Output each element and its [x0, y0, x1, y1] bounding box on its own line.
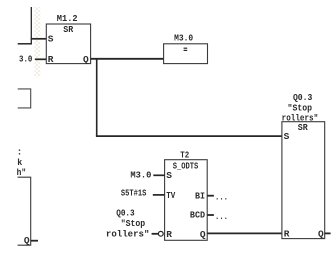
svg-text:R: R — [284, 229, 290, 240]
svg-text:Q: Q — [24, 235, 30, 246]
assign coil box M3.0 — [164, 44, 208, 64]
assign = symbol — [184, 48, 188, 49]
wire: vertical drop from Q junction — [96, 59, 98, 136]
wire: Q of timer to R of output SR — [207, 232, 282, 234]
svg-text:Q: Q — [200, 229, 206, 240]
partial SR box (cut off at left, bottom) — [18, 177, 31, 245]
svg-text:M1.2: M1.2 — [57, 13, 78, 24]
wire: TV input of timer — [153, 194, 165, 196]
output SR flip-flop Q0.3 box — [282, 122, 325, 239]
wire: S input of SR flip-flop M1.2 — [31, 38, 47, 40]
svg-text:h": h" — [17, 167, 27, 178]
svg-text:rollers": rollers" — [106, 228, 150, 239]
svg-text:R: R — [48, 54, 54, 65]
partial gate box (cut off at left, mid) — [18, 89, 31, 108]
svg-text:"Stop: "Stop — [288, 102, 313, 113]
svg-text:T2: T2 — [180, 149, 189, 160]
svg-text:S: S — [284, 131, 290, 142]
wire: R input of SR flip-flop M1.2 — [35, 58, 46, 60]
wire: BCD output stub — [207, 214, 214, 216]
svg-text:Q0.3: Q0.3 — [293, 92, 313, 103]
svg-text:R: R — [166, 229, 172, 240]
wire: R input stub of timer (negated) — [152, 233, 159, 235]
wire: horizontal stub joining vertical branch — [18, 43, 32, 45]
svg-text:3.0: 3.0 — [19, 54, 33, 65]
svg-text:Q: Q — [83, 54, 89, 65]
svg-text:Q: Q — [318, 229, 324, 240]
SR flip-flop M1.2 box — [46, 24, 90, 64]
svg-text:S: S — [166, 170, 172, 181]
wire: Q of M1.2 to assign box — [91, 58, 164, 60]
wire: BI output stub — [207, 195, 214, 197]
svg-text:M3.0: M3.0 — [174, 32, 193, 43]
wire: long horizontal to S of output SR — [96, 135, 282, 137]
svg-text:...: ... — [215, 192, 228, 203]
svg-text:BCD: BCD — [190, 210, 205, 221]
timer T2 box — [165, 160, 208, 241]
svg-text:SR: SR — [298, 122, 308, 133]
wire: Q stub of partial box — [31, 240, 38, 242]
svg-text:SR: SR — [63, 24, 73, 35]
svg-text:TV: TV — [166, 190, 175, 201]
svg-text:...: ... — [215, 211, 228, 222]
svg-text:S5T#1S: S5T#1S — [121, 188, 147, 199]
svg-text:S: S — [48, 34, 54, 45]
background hatched rail band — [35, 7, 41, 77]
svg-text:BI: BI — [195, 190, 205, 201]
svg-text:S_ODTS: S_ODTS — [173, 160, 199, 171]
wire: Q output stub of output SR — [325, 232, 331, 234]
svg-text:M3.0: M3.0 — [130, 169, 151, 180]
wire: S input of timer — [153, 174, 164, 176]
wire: vertical branch into network (top left) — [30, 7, 32, 44]
svg-text:"Stop: "Stop — [121, 218, 146, 229]
negation circle at R input — [158, 231, 163, 236]
